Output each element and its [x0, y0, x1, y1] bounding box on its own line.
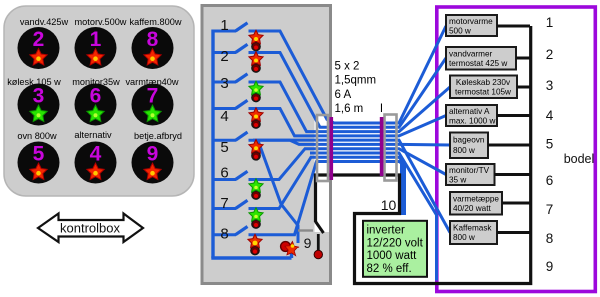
wire branch to switch 9 lamp [258, 141, 298, 244]
kontrolbox arrow [38, 214, 143, 243]
svg-text:7: 7 [220, 195, 228, 212]
switch S2 lever [236, 44, 248, 52]
indicator button 1 motorvarme [75, 27, 117, 69]
load box 1 motorvarme [446, 15, 530, 36]
svg-text:5 x 2: 5 x 2 [335, 61, 360, 73]
svg-text:I: I [380, 103, 383, 115]
lamp L1 [249, 30, 263, 50]
svg-text:betje.afbryd: betje.afbryd [134, 131, 182, 141]
svg-text:4: 4 [546, 108, 554, 123]
cable window cutout [315, 116, 330, 232]
svg-text:termostat 425 w: termostat 425 w [449, 59, 507, 68]
lamp L2 [249, 52, 263, 72]
switch S8 lever [236, 227, 248, 235]
connector block 2 [385, 115, 397, 181]
kontrolbox panel [4, 6, 194, 196]
svg-text:bageovn: bageovn [453, 136, 485, 145]
svg-text:1,5qmm: 1,5qmm [335, 75, 377, 87]
svg-text:motorv.500w: motorv.500w [75, 17, 127, 27]
svg-text:800 w: 800 w [453, 146, 475, 155]
switch S4 lever [236, 100, 248, 108]
indicator button 2 vandvarmer [18, 27, 60, 69]
svg-text:Køleskab 230v: Køleskab 230v [456, 78, 511, 87]
svg-text:1,6 m: 1,6 m [335, 103, 364, 115]
svg-text:1: 1 [220, 17, 228, 34]
wire pilot feed to lamp 9 [253, 140, 450, 232]
svg-text:bodel: bodel [564, 152, 595, 166]
right distribution cabinet [437, 7, 596, 292]
inverter U1 [363, 221, 427, 277]
svg-text:1: 1 [546, 15, 554, 30]
lamp L4 [249, 108, 263, 129]
lamp L8 [248, 234, 262, 255]
indicator button 4 alternativ [75, 142, 117, 184]
svg-text:3: 3 [220, 75, 228, 92]
indicator button 5 ovn [18, 142, 60, 184]
svg-text:6: 6 [546, 173, 554, 188]
lamp 9 pilot [281, 240, 301, 258]
connector pin strip 2 [380, 117, 384, 176]
switch S1 lever [236, 23, 248, 31]
svg-text:kontrolbox: kontrolbox [60, 221, 120, 236]
svg-text:3: 3 [546, 78, 554, 93]
connector block 1 [317, 115, 328, 181]
wire circuit 2 [213, 53, 446, 128]
load box 2 vandvarmer [446, 47, 530, 70]
lamp L3 [249, 81, 263, 102]
svg-text:vandv.425w: vandv.425w [20, 17, 69, 27]
wire circuit 1 [213, 26, 446, 123]
svg-text:termostat 105w: termostat 105w [455, 88, 511, 97]
svg-text:4: 4 [90, 143, 102, 166]
svg-text:12/220 volt: 12/220 volt [367, 237, 424, 249]
lamp L5 [249, 140, 263, 161]
svg-text:inverter: inverter [367, 225, 406, 237]
svg-text:35 w: 35 w [449, 176, 466, 185]
wire supply bus [211, 30, 214, 259]
svg-text:6: 6 [220, 165, 228, 182]
switch S6 lever [236, 171, 248, 179]
switch S9 lever [316, 222, 324, 234]
indicator button 6 monitor [75, 84, 117, 126]
svg-text:1: 1 [90, 28, 102, 51]
svg-text:Kaffemask: Kaffemask [453, 224, 492, 233]
switch box [202, 6, 331, 284]
svg-text:40/20 watt: 40/20 watt [453, 204, 492, 213]
switch S7 lever [236, 200, 248, 208]
svg-text:max. 1000 w: max. 1000 w [449, 117, 496, 126]
indicator button 7 varmetæppe [132, 84, 174, 126]
svg-text:8: 8 [147, 28, 159, 51]
load box 3 køleskab [450, 76, 530, 99]
wire circuit 8 [213, 162, 405, 235]
svg-text:monitor/TV: monitor/TV [449, 166, 490, 175]
svg-text:kaffem.800w: kaffem.800w [130, 17, 182, 27]
svg-text:9: 9 [546, 259, 554, 274]
svg-text:5: 5 [33, 143, 45, 166]
wire bottom return [211, 250, 291, 259]
indicator button 8 kaffemaskine [132, 27, 174, 69]
lamp L6 [249, 179, 263, 200]
svg-text:1000 watt: 1000 watt [367, 250, 418, 262]
wire circuit 3 [213, 82, 450, 132]
svg-text:vandvarmer: vandvarmer [449, 50, 493, 59]
svg-text:9: 9 [304, 235, 312, 251]
switch S9 terminal [317, 234, 320, 251]
load box 5 bageovn [450, 133, 530, 159]
svg-text:500 w: 500 w [449, 27, 471, 36]
connector pin strip 1 [329, 117, 333, 180]
wire circuit 6 [213, 149, 446, 180]
svg-text:5: 5 [220, 139, 228, 156]
load box 8 kaffemaskine [450, 221, 530, 244]
svg-text:alternativ: alternativ [74, 130, 112, 140]
load box 7 varmetæppe [450, 192, 530, 215]
svg-text:8: 8 [546, 231, 554, 246]
svg-text:2: 2 [546, 47, 554, 62]
svg-text:varmetæppe: varmetæppe [453, 195, 499, 204]
wire bundle line 8 to box 8 [310, 153, 437, 281]
wire circuit 5 [213, 140, 450, 145]
switch S5 lever [236, 132, 248, 140]
wire circuit 4 [213, 109, 446, 136]
svg-text:800 w: 800 w [453, 233, 475, 242]
indicator button 3 køleskab [18, 84, 60, 126]
svg-text:82 % eff.: 82 % eff. [367, 263, 412, 275]
load box 4 alternativ [446, 105, 530, 126]
svg-text:7: 7 [546, 202, 554, 217]
svg-text:motorvarme: motorvarme [449, 17, 493, 26]
black return circuit (bus to connector and switch 9) [316, 26, 531, 284]
switch S3 lever [236, 74, 248, 82]
svg-text:2: 2 [220, 48, 228, 65]
svg-text:8: 8 [220, 226, 228, 243]
svg-text:5: 5 [546, 137, 554, 152]
indicator button 9 betjening [132, 142, 174, 184]
wire circuit 7 [213, 157, 402, 215]
svg-text:alternativ A: alternativ A [449, 107, 490, 116]
svg-text:10: 10 [381, 197, 397, 213]
svg-text:ovn 800w: ovn 800w [17, 131, 57, 141]
switch S9 contact [298, 229, 313, 231]
svg-text:6 A: 6 A [335, 89, 352, 101]
svg-text:4: 4 [220, 108, 228, 125]
lamp L7 [249, 208, 263, 229]
load box 6 monitor [446, 164, 530, 185]
